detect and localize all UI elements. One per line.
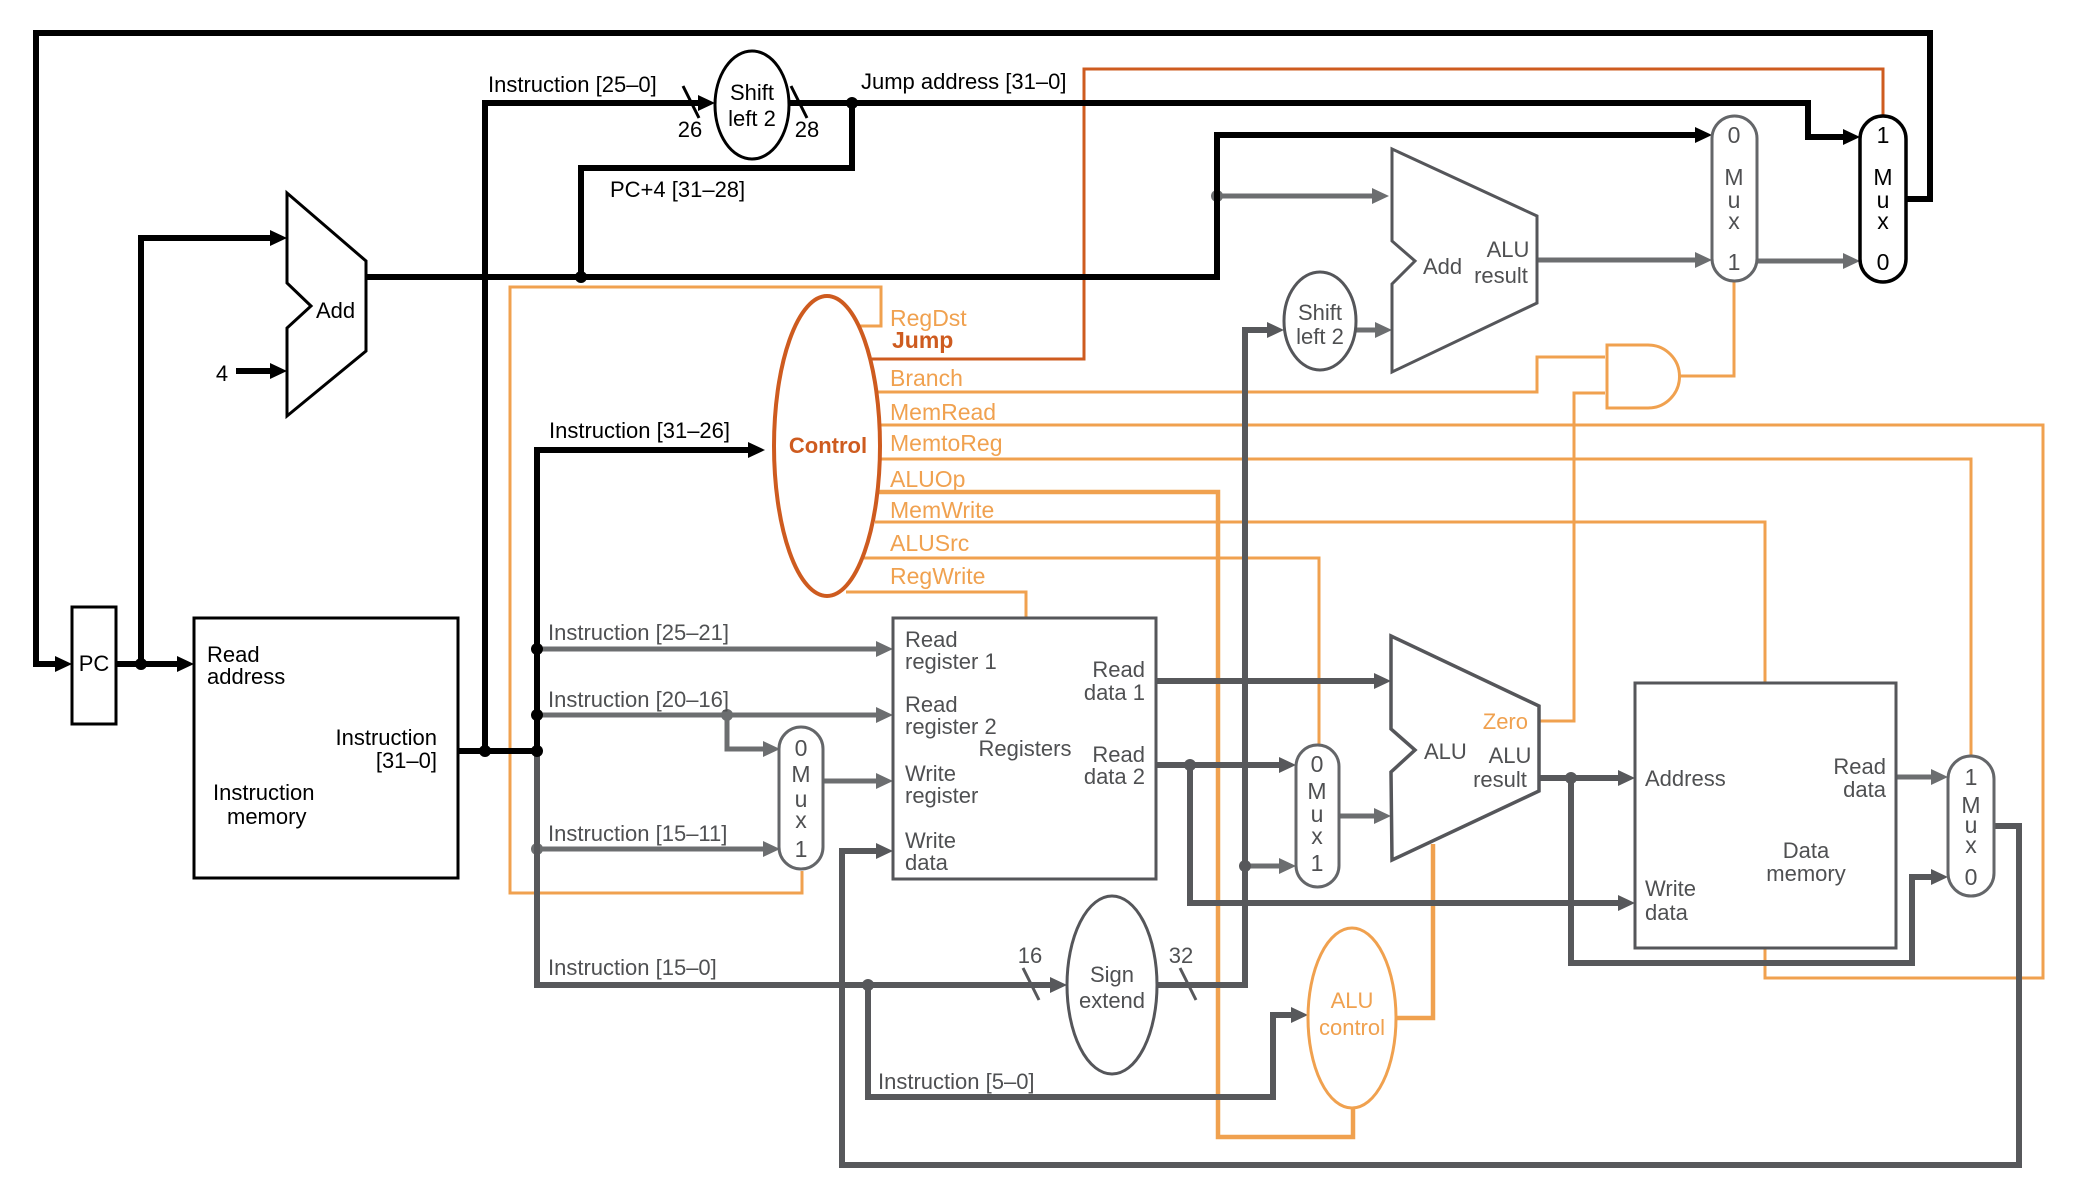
control unit ellipse bbox=[774, 296, 880, 596]
svg-text:data 1: data 1 bbox=[1084, 680, 1145, 705]
wire branch mux output to jump mux input 0 bbox=[1757, 253, 1860, 269]
label Instruction [15-11] bbox=[548, 821, 727, 846]
svg-text:Instruction [20–16]: Instruction [20–16] bbox=[548, 687, 729, 712]
label Shift left 2 (jump) bbox=[728, 80, 776, 131]
svg-text:Zero: Zero bbox=[1483, 709, 1528, 734]
registers box bbox=[893, 618, 1156, 879]
svg-text:control: control bbox=[1319, 1015, 1385, 1040]
svg-text:1: 1 bbox=[1877, 122, 1890, 148]
svg-text:1: 1 bbox=[1728, 249, 1741, 275]
label Jump bbox=[892, 327, 953, 353]
svg-text:ALUOp: ALUOp bbox=[890, 466, 965, 492]
svg-text:28: 28 bbox=[795, 117, 819, 142]
wire MemtoReg signal: Control to memory mux select bbox=[881, 459, 1971, 757]
shift left 2 (branch) ellipse bbox=[1284, 272, 1356, 370]
label Write register bbox=[905, 761, 978, 808]
svg-text:Instruction [25–0]: Instruction [25–0] bbox=[488, 72, 657, 97]
wire ALUSrc signal: Control to ALU-source mux select bbox=[864, 558, 1319, 746]
label PC+4 [31-28] bbox=[610, 177, 745, 202]
svg-text:0: 0 bbox=[1311, 751, 1324, 777]
label ALUSrc bbox=[890, 530, 969, 556]
svg-text:Shift: Shift bbox=[730, 80, 774, 105]
svg-text:x: x bbox=[1965, 832, 1977, 858]
label Instruction [25-21] bbox=[548, 620, 729, 645]
labels write-register mux 0 Mux 1 bbox=[791, 735, 810, 862]
label Jump address [31-0] bbox=[861, 69, 1066, 94]
svg-text:ALUSrc: ALUSrc bbox=[890, 530, 969, 556]
wire jump address [31-0] to jump mux input 1 bbox=[788, 97, 1860, 145]
label Instruction [15-0] bbox=[548, 955, 717, 980]
svg-text:result: result bbox=[1474, 263, 1528, 288]
svg-text:left 2: left 2 bbox=[728, 106, 776, 131]
label RegDst bbox=[890, 305, 967, 331]
label Read data 1 bbox=[1084, 657, 1145, 705]
label MemWrite bbox=[890, 497, 994, 523]
label Instruction [31-26] bbox=[549, 418, 730, 443]
svg-text:Read: Read bbox=[1092, 657, 1145, 682]
label MemtoReg bbox=[890, 430, 1002, 456]
svg-text:Instruction [25–21]: Instruction [25–21] bbox=[548, 620, 729, 645]
label MemRead bbox=[890, 399, 996, 425]
wire Instruction [31-26] to Control bbox=[531, 442, 765, 757]
ALU-source mux (0 Mux 1) bbox=[1296, 745, 1339, 887]
svg-text:PC+4 [31–28]: PC+4 [31–28] bbox=[610, 177, 745, 202]
wire Instruction [15-0] to Sign extend bbox=[537, 751, 1067, 993]
label 32 bbox=[1169, 943, 1193, 968]
wire instruction memory output Instruction [31-0] bbox=[458, 748, 540, 754]
svg-text:Instruction: Instruction bbox=[213, 780, 315, 805]
label Read register 2 bbox=[905, 692, 997, 739]
label Instruction [20-16] bbox=[548, 687, 729, 712]
label Address bbox=[1645, 766, 1726, 791]
wire write-back: memory mux output to Registers Write data bbox=[842, 826, 2019, 1165]
svg-text:x: x bbox=[1728, 208, 1740, 234]
svg-text:0: 0 bbox=[795, 735, 808, 761]
svg-text:Instruction [31–26]: Instruction [31–26] bbox=[549, 418, 730, 443]
wire Jump signal: Control to jump mux select bbox=[872, 69, 1883, 359]
wire Add output PC+4 to branch mux input 0 bbox=[366, 127, 1712, 277]
svg-text:Sign: Sign bbox=[1090, 962, 1134, 987]
svg-text:Jump address [31–0]: Jump address [31–0] bbox=[861, 69, 1066, 94]
svg-text:register 1: register 1 bbox=[905, 649, 997, 674]
wire Instruction [20-16] branch to write-register mux input 0 bbox=[721, 709, 780, 757]
wire Read data 1 to ALU input bbox=[1156, 673, 1391, 689]
branch mux (0 Mux 1) bbox=[1712, 116, 1757, 281]
AND gate (branch) bbox=[1607, 345, 1680, 408]
svg-text:address: address bbox=[207, 664, 285, 689]
label data memory Read data bbox=[1833, 754, 1886, 802]
svg-text:result: result bbox=[1473, 767, 1527, 792]
svg-text:Control: Control bbox=[789, 433, 867, 458]
label Registers bbox=[979, 736, 1072, 761]
label Instruction [31-0] bbox=[336, 725, 438, 773]
svg-text:PC: PC bbox=[79, 651, 110, 676]
wire RegDst signal: Control to write-register mux select bbox=[510, 287, 881, 893]
labels memory mux 1 Mux 0 bbox=[1961, 764, 1980, 890]
wire data memory Read data to memory mux input 1 bbox=[1896, 769, 1948, 785]
wire Zero: ALU to AND gate input bbox=[1539, 393, 1605, 721]
wire PC branch up to Add input bbox=[141, 230, 287, 664]
wire Instruction [25-21] to Read register 1 bbox=[531, 641, 893, 657]
svg-text:Add: Add bbox=[1423, 254, 1462, 279]
label ALU result bbox=[1473, 743, 1531, 792]
wire Branch signal: Control to AND gate input bbox=[878, 357, 1605, 392]
wire MemWrite signal: Control to data memory top bbox=[875, 522, 1765, 684]
wire Instruction [15-11] to write-register mux input 1 bbox=[531, 841, 780, 857]
label Zero bbox=[1483, 709, 1528, 734]
svg-text:ALU: ALU bbox=[1489, 743, 1532, 768]
wire Instruction [25-0] to shift left 2 bbox=[479, 95, 715, 757]
svg-text:Instruction [5–0]: Instruction [5–0] bbox=[878, 1069, 1035, 1094]
label ALUOp bbox=[890, 466, 965, 492]
svg-text:4: 4 bbox=[216, 361, 228, 386]
adder Add ALU result (branch) bbox=[1392, 149, 1537, 372]
svg-text:0: 0 bbox=[1728, 122, 1741, 148]
svg-text:1: 1 bbox=[795, 836, 808, 862]
labels branch mux 0 Mux 1 bbox=[1724, 122, 1743, 275]
svg-text:data 2: data 2 bbox=[1084, 764, 1145, 789]
register PC bbox=[72, 607, 116, 724]
svg-text:data: data bbox=[1645, 900, 1689, 925]
wire ALU-source mux output to ALU input bbox=[1339, 808, 1391, 824]
label Registers Write data bbox=[905, 828, 956, 875]
svg-text:ALU: ALU bbox=[1424, 739, 1467, 764]
label PC bbox=[79, 651, 110, 676]
label 28 bbox=[795, 117, 819, 142]
instruction memory box bbox=[194, 618, 458, 878]
svg-text:data: data bbox=[905, 850, 949, 875]
label Shift left 2 (branch) bbox=[1296, 300, 1344, 349]
svg-text:Instruction [15–0]: Instruction [15–0] bbox=[548, 955, 717, 980]
svg-text:RegWrite: RegWrite bbox=[890, 563, 985, 589]
svg-text:ALU: ALU bbox=[1487, 237, 1530, 262]
svg-text:M: M bbox=[791, 761, 810, 787]
shift left 2 (jump) ellipse bbox=[715, 51, 789, 159]
wire ALUOp signal: Control to ALU control bbox=[876, 492, 1353, 1137]
label Control bbox=[789, 433, 867, 458]
wire jump mux output feedback to PC bbox=[36, 33, 1930, 672]
ALU control ellipse bbox=[1308, 928, 1396, 1108]
label 26 bbox=[678, 117, 702, 142]
svg-text:MemWrite: MemWrite bbox=[890, 497, 994, 523]
svg-text:Shift: Shift bbox=[1298, 300, 1342, 325]
ALU main bbox=[1391, 636, 1539, 860]
bit width slash 28 bbox=[791, 86, 807, 118]
label ALU control bbox=[1319, 988, 1385, 1040]
svg-text:Write: Write bbox=[1645, 876, 1696, 901]
label branch adder ALU result bbox=[1474, 237, 1529, 288]
label Branch bbox=[890, 365, 963, 391]
svg-text:Instruction: Instruction bbox=[336, 725, 438, 750]
svg-text:x: x bbox=[1877, 208, 1889, 234]
wire Instruction [20-16] to Read register 2 bbox=[531, 707, 893, 723]
svg-text:MemtoReg: MemtoReg bbox=[890, 430, 1002, 456]
svg-text:32: 32 bbox=[1169, 943, 1193, 968]
label branch adder Add bbox=[1423, 254, 1462, 279]
adder Add (PC+4) bbox=[287, 193, 366, 416]
label Read data 2 bbox=[1084, 742, 1145, 789]
wire PC+4 to branch adder top input bbox=[1211, 188, 1389, 204]
sign extend ellipse bbox=[1067, 896, 1157, 1074]
wire RegWrite signal: Control to Registers top bbox=[846, 592, 1026, 619]
wire ALU result to data memory Address and memory mux input 0 bbox=[1539, 770, 1948, 963]
svg-text:0: 0 bbox=[1965, 864, 1978, 890]
label RegWrite bbox=[890, 563, 985, 589]
svg-text:Add: Add bbox=[316, 298, 355, 323]
wire Read data 2 to ALU-source mux input 0 and data memory Write data bbox=[1156, 757, 1635, 911]
svg-text:left 2: left 2 bbox=[1296, 324, 1344, 349]
wire PC+4 [31-28] to jump address junction bbox=[575, 103, 852, 283]
memory mux (1 Mux 0) bbox=[1948, 756, 1994, 896]
data memory box bbox=[1635, 683, 1896, 948]
svg-text:0: 0 bbox=[1877, 249, 1890, 275]
bit width slash 16 bbox=[1023, 968, 1039, 1000]
wire mid shift-left-2 output to branch adder bottom input bbox=[1356, 322, 1392, 338]
svg-text:RegDst: RegDst bbox=[890, 305, 967, 331]
wire branch adder ALU result to branch mux input 1 bbox=[1538, 252, 1712, 268]
bit width slash 26 bbox=[683, 86, 699, 118]
write-register mux (0 Mux 1) bbox=[779, 727, 823, 869]
svg-text:Address: Address bbox=[1645, 766, 1726, 791]
label data memory Write data bbox=[1645, 876, 1696, 925]
label Instruction [25-0] bbox=[488, 72, 657, 97]
label Data memory bbox=[1766, 838, 1845, 886]
svg-text:memory: memory bbox=[227, 804, 306, 829]
svg-text:1: 1 bbox=[1965, 764, 1978, 790]
label Add bbox=[316, 298, 355, 323]
svg-text:Branch: Branch bbox=[890, 365, 963, 391]
svg-text:Registers: Registers bbox=[979, 736, 1072, 761]
wire constant 4 to Add input bbox=[236, 363, 287, 379]
label 4 bbox=[216, 361, 228, 386]
svg-text:Read: Read bbox=[1833, 754, 1886, 779]
svg-text:Instruction [15–11]: Instruction [15–11] bbox=[548, 821, 727, 846]
wire write-register mux output to Write register bbox=[823, 773, 893, 789]
label Read address bbox=[207, 642, 285, 689]
svg-text:MemRead: MemRead bbox=[890, 399, 996, 425]
svg-text:16: 16 bbox=[1018, 943, 1042, 968]
wire AND gate output to branch mux select bbox=[1679, 282, 1734, 376]
svg-text:x: x bbox=[1311, 823, 1323, 849]
svg-text:1: 1 bbox=[1311, 850, 1324, 876]
labels ALU-source mux 0 Mux 1 bbox=[1307, 751, 1326, 876]
svg-text:memory: memory bbox=[1766, 861, 1845, 886]
svg-text:data: data bbox=[1843, 777, 1887, 802]
bit width slash 32 bbox=[1180, 968, 1196, 1000]
svg-text:x: x bbox=[795, 807, 807, 833]
label Read register 1 bbox=[905, 627, 997, 674]
labels jump mux 1 Mux 0 bbox=[1873, 122, 1892, 275]
wire MemRead signal: Control to data memory bottom bbox=[881, 425, 2043, 978]
wire PC to instruction memory Read address bbox=[116, 656, 194, 672]
jump mux (1 Mux 0) bbox=[1860, 116, 1906, 282]
wire Instruction [5-0] to ALU control bbox=[868, 985, 1308, 1097]
svg-text:26: 26 bbox=[678, 117, 702, 142]
label Sign extend bbox=[1079, 962, 1145, 1013]
svg-text:ALU: ALU bbox=[1331, 988, 1374, 1013]
svg-text:extend: extend bbox=[1079, 988, 1145, 1013]
label Instruction memory bbox=[213, 780, 315, 829]
label 16 bbox=[1018, 943, 1042, 968]
svg-text:Data: Data bbox=[1783, 838, 1830, 863]
label Instruction [5-0] bbox=[878, 1069, 1035, 1094]
wire ALU control output to ALU select input bbox=[1394, 844, 1433, 1018]
svg-text:register: register bbox=[905, 783, 978, 808]
label ALU bbox=[1424, 739, 1467, 764]
svg-text:[31–0]: [31–0] bbox=[376, 748, 437, 773]
wire Sign extend output up to shift left 2 and ALU-source mux input 1 bbox=[1157, 322, 1296, 985]
